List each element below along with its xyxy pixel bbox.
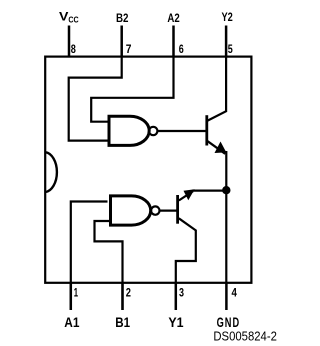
wire pin5 (Y2) to Q1 collector — [208, 57, 227, 121]
wire Q1 emitter / junction to pin 4 (GND) — [225, 151, 227, 283]
wire pin6 to NAND1 upper input — [91, 57, 173, 122]
svg-text:Y2: Y2 — [222, 10, 234, 24]
svg-text:Y1: Y1 — [168, 314, 183, 330]
svg-text:A1: A1 — [64, 314, 79, 330]
pin 4 stub — [225, 283, 228, 310]
svg-text:A2: A2 — [167, 11, 180, 25]
svg-text:5: 5 — [228, 42, 233, 56]
junction dot — [222, 186, 230, 194]
NAND U1b output bubble — [151, 206, 159, 214]
Q1 emitter arrowhead — [215, 142, 227, 154]
NAND gate U1b body — [111, 196, 151, 225]
NAND gate U1a body — [109, 116, 149, 145]
wire Q2 emitter to junction — [192, 190, 226, 192]
svg-text:DS005824-2: DS005824-2 — [213, 329, 277, 344]
wire pin7 to NAND1 lower input — [69, 57, 122, 141]
svg-text:2: 2 — [126, 286, 131, 300]
svg-text:7: 7 — [126, 42, 132, 56]
svg-text:4: 4 — [232, 286, 238, 300]
Q2 emitter arrowhead — [184, 189, 195, 200]
transistor Q2 base bar — [176, 195, 179, 224]
IC package outline — [45, 57, 251, 283]
wire pin2 to NAND2 lower input — [95, 221, 123, 310]
pin 3 stub — [175, 283, 178, 310]
wire NAND1 bubble to Q1 base — [158, 130, 206, 132]
svg-text:V: V — [59, 10, 68, 24]
pin 6 stub — [172, 26, 175, 57]
wire NAND2 bubble to Q2 base — [160, 210, 177, 212]
Q1 emitter line — [208, 141, 226, 154]
pin 1 stub — [70, 283, 73, 310]
svg-text:3: 3 — [179, 286, 184, 300]
svg-text:B1: B1 — [115, 314, 130, 330]
NAND U1a output bubble — [149, 127, 157, 135]
svg-text:1: 1 — [74, 286, 79, 300]
pin 5 stub — [225, 26, 228, 57]
package notch (pin-1 index arc) — [45, 152, 57, 192]
svg-text:6: 6 — [179, 42, 184, 56]
pin 8 stub — [68, 26, 71, 57]
transistor Q1 base bar — [205, 115, 208, 145]
svg-text:8: 8 — [71, 42, 76, 56]
svg-text:CC: CC — [68, 14, 78, 24]
pin 7 stub — [120, 26, 123, 57]
Q2 emitter line — [179, 191, 193, 200]
pin 2 stub — [121, 283, 124, 310]
wire pin1 to NAND2 upper input — [71, 202, 108, 311]
svg-text:B2: B2 — [116, 11, 129, 25]
Q2 collector to pin 3 (Y1) — [176, 218, 196, 282]
